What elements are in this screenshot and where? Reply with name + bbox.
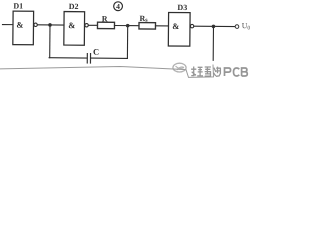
svg-text:D1: D1 [13,2,23,11]
bubble D1 output [34,23,37,26]
bubble D2 output [85,24,88,27]
svg-text:&: & [68,20,75,30]
gate D1 [13,11,34,45]
wire D3 out to terminal [194,25,235,27]
watermark text [191,67,221,77]
svg-text:D2: D2 [69,2,79,11]
svg-text:&: & [172,21,179,31]
node C junction dot [212,25,216,29]
svg-text:U0: U0 [242,21,250,31]
wire input to D1 [2,24,12,26]
capacitor C plates [86,54,88,63]
svg-text:Rs: Rs [140,14,149,24]
gate D2 [64,12,85,46]
svg-text:R: R [102,14,108,23]
wire capacitor to node B riser [91,57,127,59]
svg-text:4: 4 [116,2,120,11]
watermark logo [173,63,186,72]
node B junction dot [126,24,130,28]
wire D1 out to D2 in [38,24,64,26]
wire riser up to node B [126,26,128,59]
wire bottom to capacitor [49,57,87,59]
wire Rs to D3 [155,25,168,27]
terminal circle U0 [235,25,239,29]
node A junction dot [48,23,52,27]
wire D2 out to R [89,24,98,26]
wire feedback stub down [212,26,214,60]
svg-text:&: & [16,20,23,30]
gate D3 [168,12,190,46]
resistor Rs [139,23,156,30]
svg-text:D3: D3 [177,3,187,12]
svg-text:C: C [93,47,99,57]
bubble D3 output [190,24,193,27]
figure number circled 4 [114,2,123,11]
resistor R [97,22,114,29]
wire node A down [49,25,51,58]
watermark PCB [225,68,248,76]
wire faint feedback line bottom [0,65,214,78]
wire R to node B [114,24,138,26]
